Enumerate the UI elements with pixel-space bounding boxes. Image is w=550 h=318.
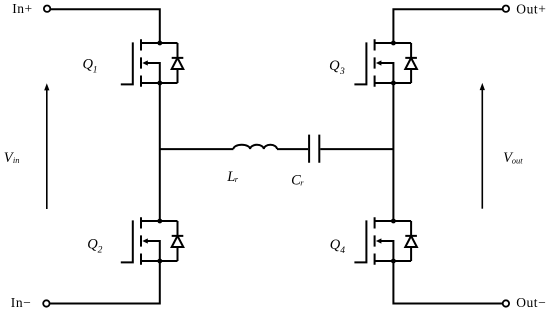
body diode of Q4 [405, 221, 417, 261]
svg-text:Out+: Out+ [516, 1, 546, 16]
svg-text:Q4: Q4 [330, 237, 346, 256]
junction: Q2 source node [157, 259, 162, 264]
junction: Q4 drain node [391, 219, 396, 224]
capacitor Cr [309, 135, 319, 163]
svg-text:In+: In+ [12, 1, 33, 16]
transistor Q1 (N-MOSFET, left bridge high side) [121, 39, 178, 86]
body diode of Q3 [405, 43, 417, 83]
transistor Q2 (N-MOSFET, left bridge low side) [121, 217, 178, 264]
wire: Lr to Cr [277, 148, 308, 150]
wire: resonant-tank rail from left bridge midpoint to Lr [160, 148, 234, 150]
junction: Q1 drain node [157, 41, 162, 46]
body diode of Q1 [172, 43, 184, 83]
svg-text:Vin: Vin [4, 150, 20, 166]
svg-text:Vout: Vout [503, 150, 523, 166]
arrow: Vout polarity arrow [480, 83, 485, 209]
svg-text:Out−: Out− [516, 295, 546, 310]
wire: left bridge midpoint segment (Q1 source to Q2 drain) [159, 83, 161, 221]
body diode of Q2 [172, 221, 184, 261]
junction: Q2 drain node [157, 219, 162, 224]
inductor Lr [233, 145, 277, 149]
wire: Cr to right bridge midpoint [320, 148, 393, 150]
wire: top-left rail from In+ terminal to left bridge drain [51, 9, 160, 43]
terminal Out- [503, 300, 509, 306]
arrow: Vin polarity arrow [44, 83, 49, 209]
svg-text:Q2: Q2 [87, 237, 102, 256]
transistor Q4 (N-MOSFET, right bridge low side) [354, 217, 411, 264]
junction: Q3 source node [391, 81, 396, 86]
terminal In- [43, 300, 49, 306]
junction: Q4 source node [391, 259, 396, 264]
svg-text:Cr: Cr [291, 173, 304, 189]
wire: top-right rail from right bridge drain to Out+ terminal [393, 9, 502, 43]
svg-text:Q1: Q1 [83, 57, 98, 76]
terminal In+ [44, 6, 50, 12]
svg-text:In−: In− [11, 295, 32, 310]
terminal Out+ [503, 6, 509, 12]
junction: Q1 source node [157, 81, 162, 86]
transistor Q3 (N-MOSFET, right bridge high side) [354, 39, 411, 86]
wire: right bridge midpoint segment (Q3 source to Q4 drain) [392, 83, 394, 221]
wire: Q4 source down to bottom-right rail and to Out- terminal [393, 261, 502, 303]
svg-text:Q3: Q3 [329, 58, 345, 77]
wire: Q2 source down to bottom-left rail and back to In- terminal [50, 261, 160, 303]
junction: Q3 drain node [391, 41, 396, 46]
svg-text:Lr: Lr [226, 169, 239, 185]
